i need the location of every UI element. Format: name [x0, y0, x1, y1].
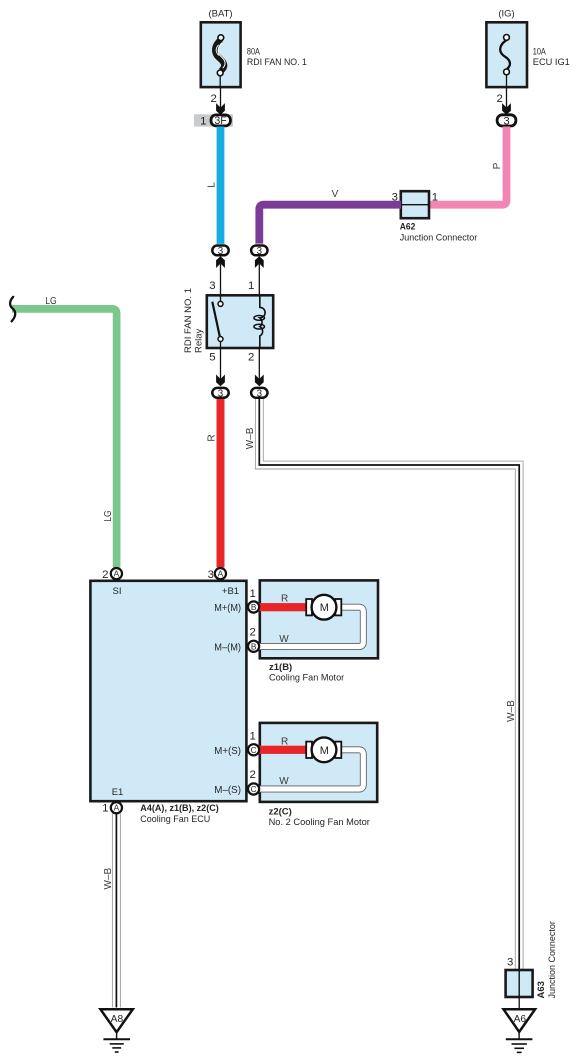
svg-text:(BAT): (BAT) — [208, 8, 232, 19]
svg-text:2: 2 — [250, 769, 256, 781]
junction connector A62 — [392, 191, 478, 243]
wire LG (green) — [12, 309, 117, 568]
label P — [492, 162, 503, 169]
wire L (blue) — [217, 127, 225, 244]
motor 2 brushes — [306, 742, 312, 758]
arrow up to oval — [216, 256, 225, 268]
pin 1 connector C — [248, 731, 259, 756]
svg-text:No. 2 Cooling Fan Motor: No. 2 Cooling Fan Motor — [269, 817, 370, 828]
svg-text:3: 3 — [507, 956, 513, 968]
svg-text:SI: SI — [113, 586, 122, 597]
arrow down (pin 5) — [216, 375, 225, 387]
pin 2 SI connector A — [102, 568, 122, 581]
fuse F1 (BAT) 80A RDI FAN NO. 1 — [201, 8, 307, 87]
svg-text:1: 1 — [248, 280, 254, 292]
wire W-B (E1 to ground A8) — [112, 813, 120, 1007]
wire W (motor 2 return) — [254, 750, 364, 789]
arrow down (pin 2) — [255, 375, 264, 387]
svg-text:W–B: W–B — [506, 700, 517, 722]
svg-text:C: C — [251, 784, 257, 794]
svg-text:RDI FAN NO. 1: RDI FAN NO. 1 — [183, 288, 194, 353]
svg-text:A6: A6 — [514, 1014, 527, 1025]
svg-text:1: 1 — [250, 588, 256, 600]
svg-text:1: 1 — [200, 116, 206, 128]
wire W-B (relay to A63) — [255, 399, 523, 970]
svg-text:W: W — [279, 776, 289, 787]
cooling fan ECU block — [90, 581, 246, 825]
svg-text:z1(B): z1(B) — [269, 662, 292, 673]
label W-B (upper) — [245, 427, 256, 449]
svg-text:M–(S): M–(S) — [214, 784, 241, 796]
svg-text:+B1: +B1 — [222, 586, 239, 597]
svg-text:1: 1 — [432, 191, 438, 203]
svg-text:A: A — [114, 569, 120, 579]
relay coil — [254, 295, 265, 348]
wire R (ECU to motor 2) — [254, 746, 308, 754]
wire to relay pin 1 — [258, 264, 260, 296]
svg-text:10A: 10A — [533, 46, 547, 57]
svg-text:A: A — [114, 803, 120, 813]
connector oval 3 (relay pin 1 side) — [251, 246, 267, 256]
svg-text:A8: A8 — [111, 1014, 124, 1025]
connector oval 3 (below pin 2) — [251, 388, 267, 398]
svg-text:2: 2 — [210, 93, 216, 105]
wire break squiggle — [10, 297, 15, 322]
svg-text:LG: LG — [45, 296, 57, 307]
wire P (pink) — [429, 127, 507, 205]
svg-text:C: C — [251, 745, 257, 755]
svg-text:1: 1 — [102, 803, 108, 815]
pin 2 connector C — [248, 769, 259, 795]
svg-text:2: 2 — [250, 627, 256, 639]
svg-text:3: 3 — [257, 388, 263, 399]
connector oval 3 (relay pin 3 side) — [212, 246, 228, 256]
relay pin 5 wire — [220, 348, 222, 379]
svg-text:Junction Connector: Junction Connector — [400, 233, 477, 244]
label L — [206, 182, 217, 188]
svg-text:V: V — [332, 189, 339, 200]
svg-text:Cooling Fan Motor: Cooling Fan Motor — [269, 673, 344, 684]
label W-B (right side) — [506, 700, 517, 722]
svg-text:3: 3 — [218, 388, 224, 399]
connector oval 3 (below pin 5) — [212, 388, 228, 398]
svg-text:3: 3 — [257, 246, 263, 257]
motor 2 M — [312, 737, 337, 762]
pin 1 E1 connector A — [102, 802, 122, 815]
wire R (ECU to motor 1) — [254, 603, 308, 611]
cooling fan motor z1(B) — [260, 580, 378, 683]
svg-text:W–B: W–B — [245, 427, 256, 449]
arrow into connector — [502, 103, 511, 115]
svg-text:ECU IG1: ECU IG1 — [533, 57, 570, 68]
fuse F2 (IG) 10A ECU IG1 — [486, 8, 569, 87]
relay pin 2 wire — [258, 348, 260, 379]
svg-text:z2(C): z2(C) — [269, 806, 292, 817]
motor 1 M — [312, 595, 337, 620]
svg-text:W–B: W–B — [103, 868, 114, 890]
svg-text:Cooling Fan ECU: Cooling Fan ECU — [140, 814, 210, 825]
pin 3 +B1 connector A — [208, 568, 226, 581]
junction connector A63 — [506, 921, 559, 998]
svg-text:3: 3 — [209, 280, 215, 292]
svg-text:M+(S): M+(S) — [214, 745, 241, 757]
svg-text:R: R — [206, 434, 217, 441]
wire from fuse F1 pin 2 — [220, 87, 222, 108]
svg-text:M: M — [320, 602, 329, 614]
svg-text:2: 2 — [102, 569, 108, 581]
svg-text:Junction Connector: Junction Connector — [547, 921, 558, 998]
svg-text:3: 3 — [218, 246, 224, 257]
svg-text:2: 2 — [496, 93, 502, 105]
pin 1 connector B — [248, 588, 259, 613]
wire R (red) — [217, 399, 225, 567]
motor 1 brushes — [306, 599, 312, 615]
svg-text:2: 2 — [248, 352, 254, 364]
pin 2 connector B — [248, 627, 259, 652]
svg-text:1: 1 — [250, 731, 256, 743]
svg-text:M: M — [320, 745, 329, 757]
svg-text:P: P — [492, 162, 503, 169]
no. 2 cooling fan motor z2(C) — [260, 723, 377, 828]
svg-text:5: 5 — [209, 352, 215, 364]
svg-text:(IG): (IG) — [498, 8, 514, 19]
svg-text:LG: LG — [103, 510, 114, 522]
svg-text:B: B — [251, 602, 257, 612]
wire W (motor 1 return) — [254, 607, 364, 646]
svg-text:A62: A62 — [400, 221, 416, 232]
svg-text:RDI FAN NO. 1: RDI FAN NO. 1 — [247, 57, 307, 68]
svg-text:L: L — [206, 182, 217, 188]
svg-text:R: R — [281, 594, 288, 605]
connector oval 3 (IG) — [497, 115, 516, 126]
svg-text:Relay: Relay — [194, 328, 205, 353]
ground A8 — [100, 1009, 132, 1052]
svg-text:M–(M): M–(M) — [214, 641, 241, 653]
arrow up to oval — [255, 256, 264, 268]
svg-text:3: 3 — [208, 569, 214, 581]
relay switch contacts — [212, 295, 223, 348]
connector oval 3F — [211, 115, 230, 126]
svg-text:R: R — [281, 736, 288, 747]
label W-B — [103, 868, 114, 890]
svg-text:3F: 3F — [214, 115, 227, 127]
svg-text:A4(A), z1(B), z2(C): A4(A), z1(B), z2(C) — [140, 803, 219, 814]
relay RDI FAN NO. 1 — [183, 288, 273, 353]
svg-text:A63: A63 — [536, 981, 547, 998]
wire A63 to ground — [518, 997, 520, 1010]
wire V (violet) — [259, 205, 401, 244]
svg-text:B: B — [251, 641, 257, 651]
wire to relay pin 3 — [220, 264, 222, 296]
svg-text:W: W — [279, 634, 289, 645]
connector shade block 1 — [194, 114, 233, 126]
svg-text:E1: E1 — [112, 787, 124, 798]
svg-text:80A: 80A — [247, 46, 261, 57]
svg-text:M+(M): M+(M) — [214, 602, 241, 614]
svg-text:3: 3 — [503, 116, 509, 128]
wire from fuse F2 pin 2 — [506, 87, 508, 108]
arrow into connector 3F — [216, 103, 225, 115]
svg-text:A: A — [218, 569, 224, 579]
label LG (vertical) — [103, 510, 114, 522]
ground A6 — [504, 1009, 536, 1052]
label R — [206, 434, 217, 441]
